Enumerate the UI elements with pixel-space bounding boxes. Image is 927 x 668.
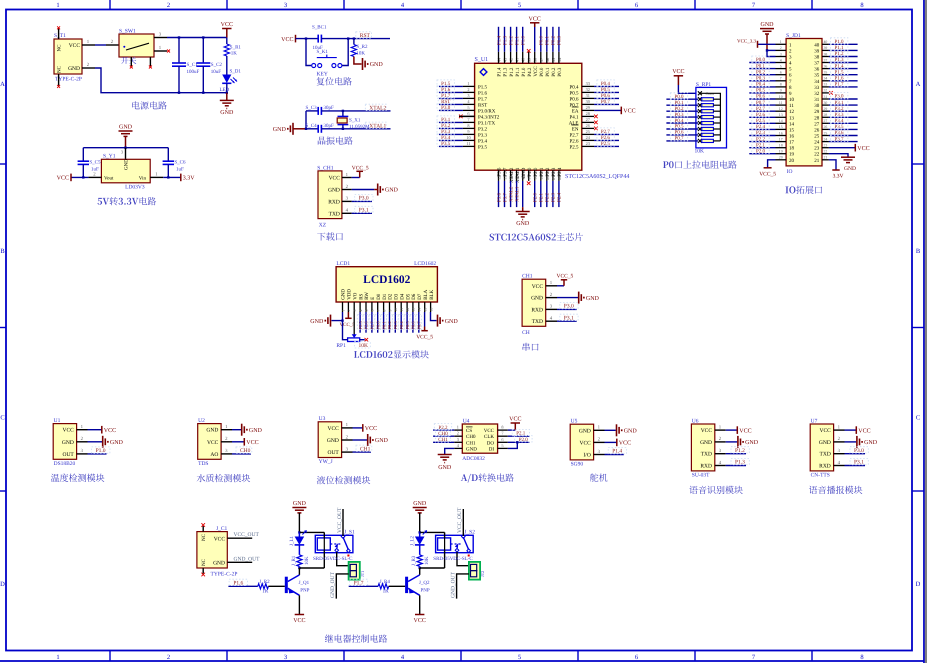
- capacitor S_BC1 10uF: [318, 35, 321, 43]
- pin stub S_SW1 bottom A: [130, 57, 132, 66]
- wire bottom P3.7: [504, 181, 506, 207]
- svg-text:VCC: VCC: [104, 428, 116, 434]
- net label P0.3 RP1: [670, 111, 687, 117]
- svg-text:JT1: JT1: [360, 571, 365, 577]
- net label CH0 U2: [236, 447, 252, 453]
- pin U5 1: [594, 429, 605, 431]
- svg-text:ADC0832: ADC0832: [462, 456, 485, 462]
- node XTAL2: [342, 110, 344, 112]
- svg-text:GND: GND: [124, 159, 130, 170]
- svg-text:P2.6: P2.6: [756, 112, 766, 118]
- ground power circuit: [226, 93, 228, 101]
- svg-text:14: 14: [789, 121, 795, 127]
- wire P1.2 JD1 right: [829, 56, 858, 58]
- wire base: [389, 585, 405, 587]
- svg-text:10: 10: [779, 95, 783, 99]
- wire P2.0 JD1 left: [749, 153, 775, 155]
- svg-text:VCC: VCC: [327, 426, 339, 432]
- net label P2.6 JD1: [752, 111, 769, 117]
- svg-text:23: 23: [814, 146, 820, 152]
- wire coil through: [323, 532, 325, 538]
- svg-text:DO: DO: [487, 440, 495, 446]
- svg-text:P0.5: P0.5: [674, 124, 684, 130]
- svg-text:P1.0: P1.0: [835, 39, 845, 45]
- svg-text:P0.0: P0.0: [756, 57, 766, 63]
- svg-text:VCC: VCC: [57, 176, 69, 182]
- net label P3.7 JD1 right: [831, 135, 848, 141]
- resistor J_R3: [417, 555, 422, 567]
- wire VCC_3.3 row1: [758, 43, 776, 45]
- port VCC U6: [736, 426, 738, 434]
- RP1 resistor P0.5: [698, 127, 702, 131]
- svg-text:VCC: VCC: [246, 440, 258, 446]
- svg-text:P3.2: P3.2: [441, 123, 451, 129]
- node C1 bottom: [178, 92, 180, 94]
- wire relay common VCC_OUT: [462, 509, 464, 536]
- svg-text:19: 19: [779, 150, 783, 154]
- svg-text:P2.5: P2.5: [756, 118, 766, 124]
- svg-text:26: 26: [814, 127, 820, 133]
- wire adc VCC: [508, 429, 516, 431]
- svg-text:P1.4: P1.4: [612, 449, 622, 455]
- svg-text:D: D: [916, 581, 921, 588]
- node coil bottom: [298, 567, 300, 569]
- pin CH1 3: [546, 308, 557, 310]
- svg-text:38: 38: [814, 55, 820, 61]
- svg-text:P3.5: P3.5: [441, 141, 451, 147]
- svg-text:20: 20: [789, 158, 795, 164]
- svg-text:P2.7: P2.7: [756, 106, 766, 112]
- net label P2.2 JD1: [752, 135, 769, 141]
- pin S_SW1 pin 2: [106, 44, 119, 46]
- net label P1.0 JD1 right: [831, 38, 848, 44]
- svg-text:P0.3: P0.3: [557, 35, 563, 45]
- wire U5 VCC: [605, 441, 617, 443]
- wire bottom XTAL2: [510, 181, 512, 207]
- svg-text:GND: GND: [844, 166, 856, 172]
- wire emitter to VCC: [298, 595, 300, 614]
- net label P0.2 RP1: [670, 105, 687, 111]
- net label P1.7 JD1 right: [831, 80, 848, 86]
- svg-text:VCC: VCC: [619, 441, 631, 447]
- svg-text:GND: GND: [516, 221, 530, 227]
- svg-text:P2.4: P2.4: [756, 124, 766, 130]
- svg-text:P0.4: P0.4: [756, 82, 766, 88]
- svg-text:9: 9: [467, 129, 469, 134]
- svg-text:GND: GND: [293, 501, 307, 507]
- svg-text:VCC: VCC: [484, 428, 495, 434]
- svg-text:AO: AO: [210, 452, 218, 458]
- svg-text:CS: CS: [466, 428, 472, 434]
- svg-text:P1.2: P1.2: [835, 51, 845, 57]
- svg-text:11: 11: [466, 141, 470, 146]
- wire top P0.3: [558, 27, 560, 52]
- transistor J_Q2 PNP: [405, 577, 408, 593]
- svg-text:P1.2: P1.2: [509, 67, 515, 77]
- svg-text:DS18B20: DS18B20: [54, 461, 76, 467]
- svg-text:30: 30: [814, 103, 820, 109]
- svg-text:P3.2: P3.2: [478, 126, 488, 132]
- svg-text:S_D1: S_D1: [230, 69, 242, 75]
- net label P0.6 right: [597, 92, 614, 98]
- svg-text:9: 9: [388, 310, 392, 312]
- wire lcd pin 12: [406, 312, 408, 333]
- svg-text:1uF: 1uF: [176, 167, 184, 173]
- wire base input: [228, 585, 257, 587]
- net label P1.3 JD1 right: [831, 56, 848, 62]
- wire CH1 VCC_5: [352, 177, 360, 179]
- wire base: [268, 585, 284, 587]
- svg-text:2: 2: [457, 431, 459, 436]
- svg-text:BLK: BLK: [429, 289, 435, 299]
- svg-text:GND: GND: [213, 561, 225, 567]
- svg-text:P1.3: P1.3: [503, 67, 509, 77]
- svg-text:P3.7: P3.7: [835, 136, 845, 142]
- wire relay NC to terminal: [457, 552, 469, 566]
- svg-text:22: 22: [557, 176, 562, 180]
- wire bottom P2.4: [558, 181, 560, 207]
- caption reset circuit: [316, 77, 351, 85]
- ground JD1 bottom: [841, 157, 855, 162]
- resistor S_R2 10K: [353, 39, 355, 45]
- svg-text:P2.4: P2.4: [557, 167, 563, 177]
- svg-text:J_Q2: J_Q2: [419, 580, 430, 586]
- wire XTAL2: [322, 110, 391, 112]
- svg-text:P3.1: P3.1: [359, 208, 369, 214]
- svg-text:13: 13: [789, 115, 795, 121]
- svg-text:P2.3: P2.3: [551, 192, 557, 202]
- pin stub top P1.0: [522, 52, 524, 64]
- svg-text:RXD: RXD: [819, 464, 831, 470]
- svg-text:CN-TTS: CN-TTS: [811, 473, 830, 479]
- svg-text:12: 12: [406, 308, 410, 312]
- svg-text:D7: D7: [417, 293, 423, 300]
- net label P3.5 left: [437, 140, 454, 146]
- caption relay control circuit: [325, 634, 387, 642]
- wire adc DO: [508, 441, 530, 443]
- svg-text:23: 23: [824, 144, 828, 148]
- wire U6 TXD: [726, 453, 746, 455]
- net label P1.6 left: [437, 86, 454, 92]
- svg-text:TXD: TXD: [329, 211, 340, 217]
- svg-text:D5: D5: [405, 293, 411, 300]
- svg-text:VCC: VCC: [672, 69, 684, 75]
- svg-text:GND: GND: [586, 296, 600, 302]
- svg-text:P2.2: P2.2: [756, 136, 766, 142]
- wire terminal GND_OUT: [457, 574, 469, 599]
- svg-text:D3: D3: [394, 293, 400, 300]
- svg-text:TXD: TXD: [819, 452, 830, 458]
- svg-text:10K: 10K: [356, 50, 365, 56]
- relay switch blade: [343, 537, 348, 549]
- wire P1.4 JD1 right: [829, 68, 858, 70]
- wire P3.5 JD1 right: [829, 128, 858, 130]
- svg-text:E: E: [370, 297, 376, 300]
- svg-text:S_U1: S_U1: [475, 57, 489, 63]
- svg-text:VCC: VCC: [529, 16, 541, 22]
- wire P1.3 JD1 right: [829, 62, 858, 64]
- svg-text:C: C: [916, 414, 920, 421]
- ground adc: [438, 455, 452, 463]
- svg-text:P2.4: P2.4: [557, 192, 563, 202]
- svg-text:P0.4: P0.4: [399, 321, 404, 330]
- potentiometer RP1 10K: [348, 338, 360, 342]
- svg-text:8: 8: [467, 123, 469, 128]
- wire CH1 adc: [433, 441, 454, 443]
- wire U6 RXD: [726, 465, 746, 467]
- wire P3.4 JD1 right: [829, 122, 858, 124]
- wire P3.3 JD1 right: [829, 116, 858, 118]
- net label P2.1 adc: [512, 430, 529, 436]
- svg-text:9: 9: [780, 89, 782, 93]
- switch S_SW1: [119, 34, 154, 57]
- svg-text:B: B: [916, 248, 921, 255]
- diode J_L1 flyback LED: [298, 532, 300, 536]
- pin U1 1: [77, 429, 88, 431]
- port VCC_3.3: [757, 41, 759, 48]
- net label P3.2 JD1 right: [831, 105, 848, 111]
- caption IO expansion port: [785, 186, 822, 194]
- svg-text:VCC: VCC: [579, 440, 591, 446]
- svg-text:1K: 1K: [383, 589, 390, 595]
- svg-text:37: 37: [824, 58, 828, 62]
- wire EA to VCC: [594, 109, 621, 111]
- svg-text:30: 30: [586, 99, 590, 104]
- svg-text:GND: GND: [249, 428, 263, 434]
- net label P0.6 RP1: [670, 128, 687, 134]
- wire lcd pin 8: [383, 312, 385, 333]
- svg-text:P1.6: P1.6: [233, 580, 243, 586]
- port VCC U7: [855, 426, 857, 434]
- svg-text:J_R2: J_R2: [259, 579, 270, 585]
- svg-text:P1.5: P1.5: [441, 81, 451, 87]
- wire P2.2 adc: [433, 429, 454, 431]
- svg-text:RW: RW: [364, 292, 370, 300]
- svg-text:TXD: TXD: [701, 452, 712, 458]
- wire P0.2 to RP1: [666, 110, 698, 112]
- svg-text:GND: GND: [220, 110, 234, 116]
- svg-text:GND: GND: [445, 319, 459, 325]
- svg-text:XTAL1: XTAL1: [514, 186, 520, 202]
- connector S_T1 (TYPE-C-2P): [54, 39, 82, 74]
- port VCC_5 JD1: [764, 167, 772, 169]
- svg-text:P0.1: P0.1: [756, 63, 766, 69]
- svg-text:30: 30: [824, 101, 828, 105]
- svg-text:VCC_OUT: VCC_OUT: [337, 507, 343, 533]
- svg-text:P3.6: P3.6: [497, 167, 503, 177]
- wire CH1 RXD: [352, 200, 372, 202]
- wire U6 GND: [726, 441, 738, 443]
- node lcd gnd: [341, 319, 343, 321]
- wire right P0.7: [594, 103, 619, 105]
- svg-text:P0.1: P0.1: [381, 321, 386, 329]
- svg-text:VCC: VCC: [739, 428, 751, 434]
- pin U5 3: [594, 454, 605, 456]
- svg-text:32: 32: [824, 89, 828, 93]
- svg-text:OUT: OUT: [327, 450, 339, 456]
- svg-text:P1.6: P1.6: [441, 87, 451, 93]
- svg-text:P2.5: P2.5: [569, 144, 579, 150]
- svg-text:14: 14: [418, 308, 422, 312]
- wire U1 GND: [88, 441, 103, 443]
- pin CH1 1: [546, 285, 557, 287]
- svg-text:GND: GND: [385, 188, 399, 194]
- resistor J_R2 1K: [258, 584, 269, 589]
- net label P3.1 U7: [850, 459, 868, 465]
- svg-text:1K: 1K: [231, 51, 238, 57]
- svg-text:P3.3: P3.3: [835, 112, 845, 118]
- svg-text:36: 36: [814, 67, 820, 73]
- net label P3.0 left: [437, 104, 454, 110]
- svg-text:GND: GND: [68, 66, 80, 72]
- wire left P3.5: [439, 145, 463, 147]
- svg-text:32: 32: [586, 87, 590, 92]
- svg-text:P0.2: P0.2: [551, 67, 557, 77]
- svg-text:P3.1: P3.1: [854, 460, 864, 466]
- svg-text:VCC: VCC: [533, 66, 539, 77]
- svg-text:I/O: I/O: [583, 453, 590, 459]
- svg-text:P2.6: P2.6: [364, 321, 369, 330]
- svg-text:XTAL2: XTAL2: [508, 186, 514, 202]
- pin U2 3: [221, 453, 232, 455]
- node coil top: [419, 531, 421, 533]
- svg-text:VCC_3.3: VCC_3.3: [737, 39, 757, 45]
- wire U3 VCC: [353, 427, 363, 429]
- pin stub top P0.3: [558, 52, 560, 64]
- svg-text:29: 29: [814, 109, 820, 115]
- svg-text:P2.7: P2.7: [601, 129, 611, 135]
- net label P1.0 U1: [92, 447, 110, 453]
- net label P2.7 right: [597, 128, 614, 134]
- net label P2.7 JD1: [752, 105, 769, 111]
- net label P3.5 JD1 right: [831, 123, 848, 129]
- wire P0.7 to RP1: [666, 140, 698, 142]
- wire S_T1 VCC to switch: [95, 44, 106, 46]
- svg-text:SRD-05VDC-SL-C: SRD-05VDC-SL-C: [313, 556, 353, 562]
- svg-text:P4.0: P4.0: [527, 167, 533, 177]
- svg-text:P2.2: P2.2: [545, 192, 551, 202]
- pin J_C1 GND out: [227, 561, 252, 563]
- ground U1: [103, 436, 108, 448]
- svg-text:10uF: 10uF: [211, 69, 222, 75]
- svg-text:4: 4: [780, 58, 782, 62]
- svg-text:2: 2: [167, 2, 170, 9]
- wire lcd BLA VCC_5: [424, 312, 426, 327]
- capacitor S_C6 1uF: [163, 161, 174, 164]
- svg-text:P1.3: P1.3: [502, 35, 508, 45]
- wire U3 OUT: [353, 451, 372, 453]
- svg-text:P2.5: P2.5: [601, 141, 611, 147]
- net label P3.0 U7: [850, 447, 868, 453]
- wire coil bottom: [420, 567, 445, 569]
- svg-text:B: B: [0, 248, 5, 255]
- wire lcd GND pin1: [332, 312, 343, 321]
- svg-text:29: 29: [824, 107, 828, 111]
- net label P1.6 base: [229, 579, 247, 585]
- svg-text:14: 14: [779, 119, 783, 123]
- wire bottom P2.2: [546, 181, 548, 207]
- net label CH1 U3: [356, 445, 372, 451]
- svg-text:J_L1: J_L1: [289, 536, 295, 547]
- net label P0.6 JD1: [752, 93, 769, 99]
- svg-text:25: 25: [814, 134, 820, 140]
- svg-text:P1.1: P1.1: [515, 67, 521, 77]
- caption water quality module: [197, 474, 250, 482]
- RP1 resistor P0.7: [698, 139, 702, 143]
- port VCC reset: [295, 35, 297, 43]
- pin U6 4: [715, 465, 726, 467]
- wire lcd pin 11: [400, 312, 402, 333]
- svg-text:P1.0: P1.0: [521, 35, 527, 45]
- pin U3 1: [342, 427, 353, 429]
- wire relay NC to terminal: [337, 552, 349, 566]
- wire U7 VCC: [845, 429, 857, 431]
- pin stub J_C1 top: [202, 526, 204, 532]
- svg-text:RP1: RP1: [336, 343, 346, 349]
- terminal block JT1: [349, 562, 360, 580]
- power VCC emitter: [415, 614, 424, 616]
- svg-text:17: 17: [779, 137, 783, 141]
- svg-text:27: 27: [814, 121, 820, 127]
- node LED bottom: [226, 92, 228, 94]
- svg-text:P0.2: P0.2: [674, 106, 684, 112]
- wire VCC JD1 pin23: [829, 147, 855, 149]
- svg-text:34: 34: [824, 77, 828, 81]
- svg-text:33: 33: [586, 81, 590, 86]
- ground reset: [354, 57, 362, 65]
- wire P1.1 JD1 right: [829, 49, 858, 51]
- resistor S_R1 1K: [226, 38, 228, 45]
- svg-text:P0.0: P0.0: [539, 35, 545, 45]
- ground crystal: [288, 123, 293, 135]
- wire lcd VO to pot: [353, 312, 355, 335]
- wire VCC top rail: [167, 37, 227, 39]
- svg-text:P0.1: P0.1: [545, 67, 551, 77]
- pin S_SW1 pin 3: [154, 37, 167, 39]
- svg-text:1: 1: [467, 81, 469, 86]
- wire reset top right: [322, 38, 390, 40]
- svg-text:GND: GND: [579, 428, 591, 434]
- port 3.3V JD1: [832, 169, 839, 171]
- regulator S_Y1 LD03V3: [125, 148, 127, 160]
- svg-text:1: 1: [780, 40, 782, 44]
- pin stub top P0.0: [540, 52, 542, 64]
- pin U6 1: [715, 429, 726, 431]
- wire P1.0 JD1 right: [829, 43, 858, 45]
- svg-text:S_C3: S_C3: [306, 105, 318, 111]
- net label P1.7 base: [349, 579, 367, 585]
- svg-text:15: 15: [789, 127, 795, 133]
- wire lcd pin 10: [394, 312, 396, 333]
- svg-text:2: 2: [780, 46, 782, 50]
- svg-text:YW_J: YW_J: [319, 459, 334, 465]
- wire top P1.2: [510, 27, 512, 52]
- net label P3.1 download: [355, 206, 373, 212]
- pin stub top P1.2: [510, 52, 512, 64]
- wire P0.5 to RP1: [666, 128, 698, 130]
- svg-text:8: 8: [382, 310, 386, 312]
- node C1 top: [178, 36, 180, 38]
- svg-text:VCC_5: VCC_5: [352, 165, 369, 171]
- svg-text:20: 20: [545, 176, 550, 180]
- wire P0.4 to RP1: [666, 122, 698, 124]
- svg-text:P2.1: P2.1: [756, 142, 766, 148]
- svg-text:35: 35: [814, 73, 820, 79]
- svg-text:P3.0: P3.0: [854, 448, 864, 454]
- svg-text:J_L2: J_L2: [410, 536, 416, 547]
- svg-text:S_C6: S_C6: [174, 160, 186, 166]
- svg-text:GND: GND: [624, 429, 638, 435]
